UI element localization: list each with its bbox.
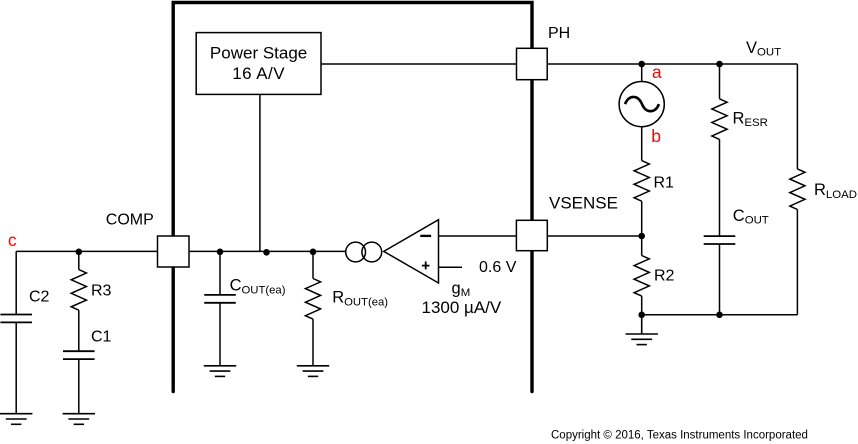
- svg-text:COUT(ea): COUT(ea): [230, 277, 286, 297]
- wire power stage down to COMP rail: [259, 94, 261, 251]
- capacitor COUTea: [204, 294, 236, 296]
- IC boundary (power stage block outline): [173, 3, 532, 392]
- wire gm amp plus input to 0.6V: [439, 266, 463, 268]
- wire RLOAD bottom up: [796, 210, 798, 315]
- resistor R2: [634, 256, 649, 297]
- wire ROUTea to ground: [312, 319, 314, 366]
- node R1-R2-VSENSE junction: [638, 233, 645, 240]
- wire node c down to C2: [15, 251, 17, 314]
- svg-text:COMP: COMP: [106, 211, 154, 228]
- wire COUT to ground rail: [719, 244, 721, 315]
- capacitor C1: [63, 350, 95, 352]
- node COUTea junction: [217, 249, 224, 256]
- svg-text:R3: R3: [91, 283, 112, 300]
- wire VSENSE node to R2: [641, 236, 643, 256]
- AC source between a and b: [619, 82, 664, 127]
- wire VOUT node to RESR: [719, 64, 721, 99]
- pin COMP: [158, 236, 190, 267]
- wire R3 to C1: [78, 310, 80, 351]
- wire ROUTea node down: [312, 251, 314, 278]
- svg-text:VOUT: VOUT: [746, 39, 781, 59]
- svg-text:R2: R2: [654, 268, 675, 285]
- wire COUTea node down: [219, 251, 221, 295]
- wire RESR to COUT: [719, 139, 721, 236]
- node R3 junction: [76, 249, 83, 256]
- ground below C2: [0, 413, 32, 415]
- wire gm amp minus input to VSENSE pin: [439, 235, 517, 237]
- svg-text:R1: R1: [654, 174, 675, 191]
- resistor R3: [71, 270, 86, 311]
- wire PH pin to VOUT corner: [547, 63, 797, 65]
- wire node c corner to COMP pin: [16, 250, 157, 252]
- wire R3 node down: [78, 251, 80, 269]
- resistor R1: [634, 161, 649, 202]
- resistor RESR: [712, 99, 727, 140]
- wire R1 to VSENSE node: [641, 201, 643, 236]
- svg-text:b: b: [651, 126, 661, 146]
- svg-text:Power Stage: Power Stage: [210, 43, 307, 62]
- wire VOUT right edge down to RLOAD: [796, 64, 798, 169]
- resistor ROUTea: [305, 279, 320, 320]
- wire power stage to PH pin: [321, 63, 517, 65]
- minus input mark: [420, 235, 431, 237]
- pin PH: [517, 48, 548, 79]
- capacitor C2: [0, 314, 32, 316]
- node a junction: [638, 61, 645, 68]
- wire COUTea to ground: [219, 303, 221, 366]
- power stage block U1: [196, 33, 321, 95]
- capacitor COUT: [704, 235, 736, 237]
- ground below ROUTea: [297, 365, 329, 367]
- svg-text:PH: PH: [548, 25, 570, 42]
- node power stage junction: [263, 249, 270, 256]
- wire AC source to R1: [641, 127, 643, 161]
- wire C2 to ground: [15, 322, 17, 413]
- ground below COUTea: [204, 365, 236, 367]
- ground below C1: [63, 413, 95, 415]
- wire COMP pin to gm amp output: [189, 250, 346, 252]
- svg-text:0.6 V: 0.6 V: [479, 259, 517, 276]
- op-amp gm error amplifier triangle: [384, 220, 439, 283]
- ground below R2: [641, 315, 643, 334]
- node COUT ground junction: [716, 312, 723, 319]
- wire R2 to ground node: [641, 296, 643, 315]
- gm amp output current source circles: [346, 242, 382, 262]
- node R2 ground junction: [638, 312, 645, 319]
- svg-text:C2: C2: [29, 289, 50, 306]
- svg-text:gM: gM: [452, 279, 471, 299]
- svg-text:RLOAD: RLOAD: [814, 181, 857, 201]
- wire bottom ground rail: [642, 314, 798, 316]
- pin VSENSE: [516, 220, 547, 250]
- svg-text:VSENSE: VSENSE: [549, 194, 618, 213]
- wire VSENSE pin to divider node: [547, 235, 641, 237]
- plus input mark: [422, 265, 430, 267]
- svg-text:1300 µA/V: 1300 µA/V: [422, 298, 502, 317]
- svg-text:COUT: COUT: [733, 207, 769, 227]
- svg-text:ROUT(ea): ROUT(ea): [332, 289, 388, 309]
- wire C1 to ground: [78, 359, 80, 414]
- node ROUTea junction: [310, 249, 317, 256]
- wire node a to AC source: [641, 64, 643, 82]
- svg-text:RESR: RESR: [733, 109, 768, 129]
- svg-text:Copyright © 2016, Texas Instru: Copyright © 2016, Texas Instruments Inco…: [551, 429, 808, 441]
- svg-text:c: c: [8, 230, 17, 250]
- svg-text:16 A/V: 16 A/V: [232, 64, 285, 83]
- svg-text:C1: C1: [91, 328, 112, 345]
- resistor RLOAD: [790, 169, 805, 210]
- node VOUT junction: [716, 61, 723, 68]
- svg-text:a: a: [652, 62, 662, 82]
